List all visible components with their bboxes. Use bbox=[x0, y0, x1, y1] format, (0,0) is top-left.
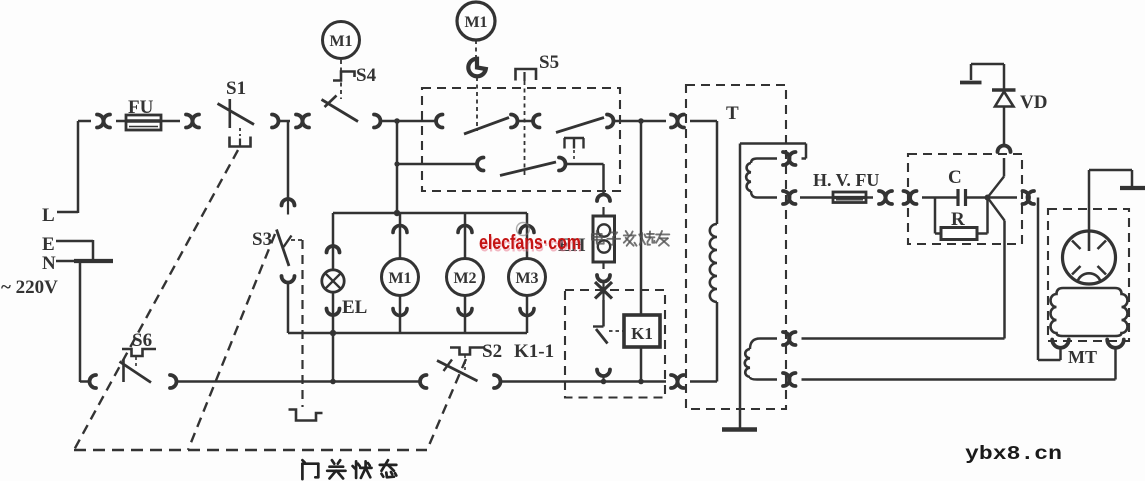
node N (neutral input) bbox=[56, 260, 80, 263]
wire VD to ground bbox=[1003, 64, 1006, 90]
svg-text:R: R bbox=[951, 209, 965, 230]
timer cam symbol bbox=[468, 59, 485, 77]
relay contact K1-1 dashed link bbox=[609, 330, 624, 332]
magnetron MT tube bbox=[1063, 231, 1116, 284]
switch S3 lower contact hook bbox=[282, 276, 295, 283]
svg-text:S4: S4 bbox=[356, 65, 377, 86]
lamp EL bbox=[322, 270, 344, 292]
junction hooks bbox=[186, 115, 193, 128]
row2 left contact hook bbox=[477, 158, 483, 171]
relay contact K1-1 blade bbox=[596, 329, 608, 344]
wire motor bottom rail bbox=[333, 332, 527, 335]
switch S1 door plunger bbox=[230, 137, 251, 147]
svg-text:L: L bbox=[42, 205, 55, 226]
junction hooks bus bottom into T bbox=[671, 375, 678, 388]
relay coil K1 bbox=[624, 315, 660, 347]
timer contact 2 left hook bbox=[533, 115, 540, 128]
wire junction to output hook bbox=[988, 196, 1018, 199]
motor M1 top hook bbox=[393, 226, 407, 233]
relay coil K1 feed bbox=[640, 121, 643, 315]
door hook dashed drop bbox=[291, 239, 303, 241]
wire bus S2 to T bbox=[500, 380, 666, 383]
switch S5 cam symbol bbox=[516, 69, 537, 81]
ground (top right) bbox=[960, 81, 982, 85]
timer contact 1 right hook bbox=[511, 115, 518, 128]
motor M3 bbox=[509, 259, 546, 296]
svg-text:VD: VD bbox=[1020, 92, 1047, 113]
wire filament return bbox=[802, 378, 1116, 381]
junction dot cathode node bbox=[985, 195, 991, 201]
timer contact 1 blade bbox=[464, 118, 509, 135]
relay contact K1-1 dashed box bbox=[565, 290, 665, 398]
svg-text:EL: EL bbox=[342, 297, 367, 318]
svg-text:M1: M1 bbox=[464, 14, 487, 31]
ground (earth of E) bbox=[92, 240, 95, 259]
motor M1 bottom lead bbox=[399, 296, 402, 334]
timer unit dashed box bbox=[422, 88, 620, 191]
svg-text:M1: M1 bbox=[388, 270, 411, 287]
wire row2 from feeder bbox=[397, 163, 478, 166]
relay coil K1 return bbox=[640, 347, 643, 382]
wire to capacitor bbox=[922, 196, 958, 199]
wire core ground drop bbox=[739, 144, 742, 429]
junction hooks HV bottom bbox=[783, 191, 790, 204]
node L (phase input) bbox=[57, 211, 78, 214]
wire timer to T bbox=[613, 120, 666, 123]
svg-text:S3: S3 bbox=[252, 229, 272, 250]
svg-text:S5: S5 bbox=[539, 52, 559, 73]
wire N drop bbox=[79, 260, 82, 382]
svg-text:elecfans·com: elecfans·com bbox=[479, 232, 581, 254]
resistor R bbox=[941, 228, 977, 240]
resistor R branch left bbox=[934, 198, 937, 234]
transformer primary winding bbox=[710, 224, 717, 302]
wire S4 to timer box bbox=[380, 120, 436, 123]
thermal cutout X symbol bbox=[595, 282, 612, 299]
wire feeder drop bbox=[396, 121, 399, 213]
wire motor top rail bbox=[333, 212, 527, 215]
junction dot bottom rail bbox=[330, 330, 336, 336]
svg-text:MT: MT bbox=[1068, 347, 1097, 367]
switch S2 left contact hook bbox=[420, 375, 427, 388]
switch S1 blade bbox=[218, 104, 255, 125]
junction dot feeder/rail bbox=[394, 210, 400, 216]
svg-text:N: N bbox=[42, 253, 56, 274]
svg-text:FU: FU bbox=[128, 97, 154, 118]
motor M1 timer bbox=[457, 2, 495, 40]
transformer HV secondary winding bbox=[746, 163, 751, 191]
svg-text:E: E bbox=[42, 234, 55, 255]
motor M1 (turntable) dashed link bbox=[340, 60, 342, 99]
timer contact 1 left hook bbox=[436, 115, 442, 128]
switch S3 upper contact hook bbox=[282, 199, 295, 206]
junction hooks bbox=[879, 191, 886, 204]
svg-text:M1: M1 bbox=[329, 33, 352, 50]
lamp EL bottom lead bbox=[332, 292, 335, 333]
motor M1 top lead bbox=[399, 213, 402, 259]
heater top hook bbox=[597, 195, 610, 201]
lamp EL top lead bbox=[332, 213, 335, 270]
resistor R branch right bbox=[977, 232, 988, 235]
switch S6 blade bbox=[120, 362, 152, 383]
timer contact 2 cam symbol bbox=[564, 137, 584, 139]
junction hooks bbox=[97, 115, 104, 128]
svg-text:S2: S2 bbox=[482, 341, 502, 362]
wire output drop bbox=[1037, 198, 1040, 361]
junction hooks HV top bbox=[783, 152, 790, 165]
wire diagonal to VD bbox=[988, 177, 1005, 198]
svg-text:C: C bbox=[948, 167, 962, 188]
timer contact 2 right hook bbox=[607, 115, 614, 128]
ground (magnetron anode) bbox=[1120, 186, 1145, 190]
fuse FU bbox=[126, 115, 161, 130]
svg-text:K1: K1 bbox=[631, 324, 653, 343]
wire HV to fuse bbox=[800, 196, 833, 199]
wire L riser bbox=[77, 121, 80, 213]
transformer filament top lead bbox=[750, 339, 777, 350]
door linkage bottom dashed line bbox=[74, 449, 427, 452]
svg-text:ybx8.cn: ybx8.cn bbox=[965, 443, 1062, 465]
switch S5 dashed link bbox=[524, 81, 526, 175]
motor M1 timer dashed link bbox=[475, 40, 477, 57]
door linkage diagonal from S1 bbox=[74, 150, 238, 450]
svg-text:M3: M3 bbox=[515, 270, 538, 287]
lamp EL top hook bbox=[327, 246, 340, 252]
door linkage diagonal from S2 bbox=[427, 359, 466, 450]
wire capacitor to junction bbox=[966, 196, 988, 199]
watermark CJK elecfans bbox=[596, 231, 598, 242]
junction dot bus/branch bbox=[394, 118, 400, 124]
wire to MT left terminal bbox=[1059, 348, 1062, 360]
relay contact K1-1 fixed lead bbox=[602, 300, 605, 327]
wire S3 branch drop bbox=[287, 121, 290, 199]
transformer T dashed box bbox=[686, 85, 786, 409]
transformer primary top lead bbox=[690, 120, 717, 123]
wire rail to bottom bus bbox=[332, 333, 335, 382]
transformer filament winding bbox=[745, 349, 750, 377]
wire row2 to heater bbox=[565, 163, 604, 166]
node E (earth input) bbox=[56, 240, 93, 243]
heater bottom hook bbox=[602, 262, 604, 269]
switch S2 cam symbol bbox=[450, 348, 484, 355]
heater EH bbox=[593, 216, 615, 262]
junction hooks bus top into T bbox=[671, 115, 678, 128]
wire VD drop bbox=[1003, 158, 1006, 177]
svg-text:K1-1: K1-1 bbox=[514, 341, 554, 362]
magnetron MT dashed box bbox=[1048, 209, 1129, 341]
switch S4 right contact hook bbox=[374, 115, 381, 128]
motor M1 bottom hook bbox=[393, 309, 407, 316]
wire bus S6 to S2 bbox=[176, 380, 420, 383]
wire top bus from L corner bbox=[78, 120, 91, 123]
motor M1 turntable bbox=[323, 22, 360, 59]
wire after FU bbox=[161, 120, 180, 123]
label door-closed-state (CJK) bbox=[302, 460, 304, 462]
magnetron MT filament housing bbox=[1051, 288, 1128, 336]
diode VD bbox=[992, 88, 1016, 91]
motor M2 top lead bbox=[464, 213, 467, 259]
switch S4 blade bbox=[322, 100, 359, 122]
switch S1 right contact hook bbox=[272, 115, 279, 128]
wire into C-R box bbox=[897, 196, 900, 199]
transformer HV secondary bottom lead bbox=[751, 191, 777, 198]
svg-text:~ 220V: ~ 220V bbox=[1, 277, 58, 298]
motor M3 bottom hook bbox=[520, 309, 534, 316]
relay contact K1-1 bottom hook bbox=[597, 370, 610, 377]
magnetron MT anode lead bbox=[1088, 170, 1091, 231]
capacitor C bbox=[956, 189, 959, 206]
switch S6 left contact hook bbox=[90, 375, 96, 388]
svg-text:H. V. FU: H. V. FU bbox=[813, 170, 879, 190]
switch S6 right contact hook bbox=[170, 375, 177, 388]
wire diagonal to filament bbox=[988, 198, 1005, 221]
switch S3 blade bbox=[277, 230, 290, 267]
wire cathode to filament line bbox=[1003, 221, 1006, 339]
motor M2 top hook bbox=[458, 226, 472, 233]
transformer HV secondary top lead bbox=[751, 159, 777, 164]
switch S4 cam symbol bbox=[333, 72, 355, 81]
junction hooks output bbox=[1023, 191, 1030, 204]
motor M1 bbox=[382, 259, 419, 296]
junction hooks bbox=[296, 115, 303, 128]
junction hooks filament top bbox=[783, 332, 790, 345]
svg-text:S1: S1 bbox=[226, 78, 246, 99]
wire HV top to core ground bbox=[802, 157, 807, 160]
timer contact 2 blade bbox=[556, 118, 604, 133]
junction hooks at box edge bbox=[904, 191, 911, 204]
row2 blade bbox=[500, 162, 556, 176]
C-R dashed box bbox=[908, 154, 1022, 244]
motor M3 top hook bbox=[520, 226, 534, 233]
switch S2 right contact hook bbox=[494, 375, 501, 388]
svg-text:M2: M2 bbox=[453, 270, 476, 287]
transformer filament bottom lead bbox=[750, 377, 777, 380]
door linkage diagonal from S3 bbox=[188, 234, 275, 450]
wire S3 to lamp rail bbox=[287, 282, 290, 333]
fuse H.V.FU bbox=[833, 192, 866, 203]
row2 right contact hook bbox=[559, 158, 566, 171]
svg-text:T: T bbox=[726, 103, 739, 124]
timer cam dashed link bbox=[476, 77, 478, 131]
junction hooks filament bottom bbox=[783, 373, 790, 386]
wire after H.V.FU bbox=[866, 196, 873, 199]
motor M2 bottom hook bbox=[458, 309, 472, 316]
motor M3 top lead bbox=[526, 213, 529, 259]
switch S6 cam symbol bbox=[122, 349, 156, 356]
wire bottom bus from N bbox=[80, 380, 90, 383]
motor M2 bottom lead bbox=[464, 296, 467, 334]
wire filament line to T bbox=[802, 337, 1005, 340]
door hook symbol bbox=[289, 410, 323, 421]
watermark registered circle bbox=[517, 223, 530, 236]
wire to fuse bbox=[116, 120, 126, 123]
ground (transformer core) bbox=[722, 427, 757, 431]
switch S2 blade bbox=[437, 361, 478, 382]
motor M2 bbox=[447, 259, 484, 296]
motor M3 bottom lead bbox=[526, 296, 529, 334]
lamp EL bottom hook bbox=[327, 309, 340, 316]
wire between timer contacts bbox=[517, 120, 533, 123]
wire S1 to S4 bbox=[278, 120, 290, 123]
transformer primary bottom lead bbox=[716, 302, 719, 382]
